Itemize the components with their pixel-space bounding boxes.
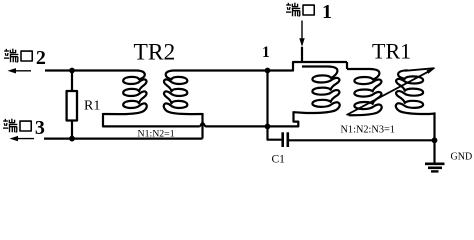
svg-text:N1:N2:N3=1: N1:N2:N3=1 — [341, 125, 395, 136]
port label 端口3 — [3, 117, 45, 139]
svg-text:GND: GND — [451, 152, 473, 163]
wire TR1 w1 bottom return jog — [269, 111, 298, 126]
svg-text:N1:N2=1: N1:N2=1 — [138, 129, 175, 140]
ground — [425, 140, 445, 171]
wire TR1 w1 entry rail + transformer TR1 winding 1 — [294, 67, 340, 114]
node 1 junction bottom — [265, 124, 271, 130]
node 1 junction top — [265, 68, 271, 74]
wire port 3 — [44, 138, 203, 140]
wire TR2 secondary bottom to port3 — [201, 113, 203, 139]
port 1 arrow — [299, 21, 304, 47]
variable coupling arrow — [347, 72, 429, 115]
transformer TR1 winding 3 — [396, 70, 435, 114]
svg-text:2: 2 — [36, 47, 46, 69]
wire node1 to port1 riser — [268, 62, 348, 71]
wire port1 drop — [301, 47, 303, 62]
wire TR2 primary bottom return — [103, 113, 199, 126]
svg-text:TR2: TR2 — [134, 40, 176, 66]
wire node1 vertical — [266, 71, 268, 127]
node port2 junction — [69, 68, 75, 74]
wire TR1 w3 bottom to gnd — [433, 112, 435, 140]
wire TR1 w3 top link to arrow tip — [405, 68, 435, 71]
svg-text:3: 3 — [35, 117, 45, 139]
wire TR1 w2 entry rail + transformer TR1 winding 2 — [346, 62, 348, 69]
wire node1 to C1 — [268, 126, 282, 139]
resistor R1 — [71, 71, 73, 92]
svg-text:1: 1 — [322, 1, 332, 23]
svg-text:C1: C1 — [272, 154, 286, 166]
node port3 junction — [69, 136, 75, 142]
port 2 arrow — [8, 68, 32, 73]
svg-text:1: 1 — [262, 44, 270, 61]
wire hop over crossing — [199, 123, 206, 127]
port label 端口2 — [4, 47, 46, 69]
wire C1 to gnd — [289, 139, 435, 141]
port 3 arrow — [10, 136, 35, 141]
capacitor C1 — [281, 132, 284, 147]
node gnd junction — [432, 137, 438, 143]
svg-text:R1: R1 — [84, 99, 100, 114]
transformer TR2 right winding — [164, 71, 268, 115]
transformer TR2 left winding — [45, 71, 147, 115]
port label 端口1 — [286, 1, 332, 23]
svg-text:TR1: TR1 — [372, 39, 411, 64]
